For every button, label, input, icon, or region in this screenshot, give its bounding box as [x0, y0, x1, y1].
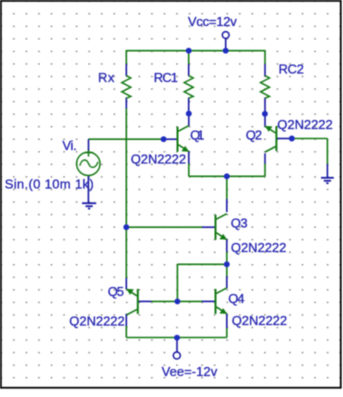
svg-text:Rx: Rx — [98, 70, 115, 85]
svg-text:Q5: Q5 — [108, 284, 124, 299]
svg-text:Q2N2222: Q2N2222 — [277, 117, 332, 132]
svg-text:Vi.: Vi. — [62, 138, 76, 153]
svg-text:Vee=-12v: Vee=-12v — [162, 364, 218, 379]
svg-text:Q2N2222: Q2N2222 — [231, 240, 286, 255]
svg-text:Q3: Q3 — [231, 216, 248, 231]
svg-text:Sin.(0 10m 1k): Sin.(0 10m 1k) — [5, 177, 94, 192]
svg-text:RC2: RC2 — [279, 62, 304, 77]
svg-text:Q2: Q2 — [246, 128, 262, 143]
svg-text:Q2N2222: Q2N2222 — [232, 313, 287, 328]
svg-text:Q4: Q4 — [228, 291, 244, 306]
svg-text:Vcc=12v: Vcc=12v — [188, 14, 237, 29]
svg-text:Q1: Q1 — [190, 128, 204, 143]
svg-text:Q2N2222: Q2N2222 — [131, 152, 186, 167]
svg-text:Q2N2222: Q2N2222 — [69, 313, 124, 328]
svg-text:RC1: RC1 — [154, 70, 178, 85]
